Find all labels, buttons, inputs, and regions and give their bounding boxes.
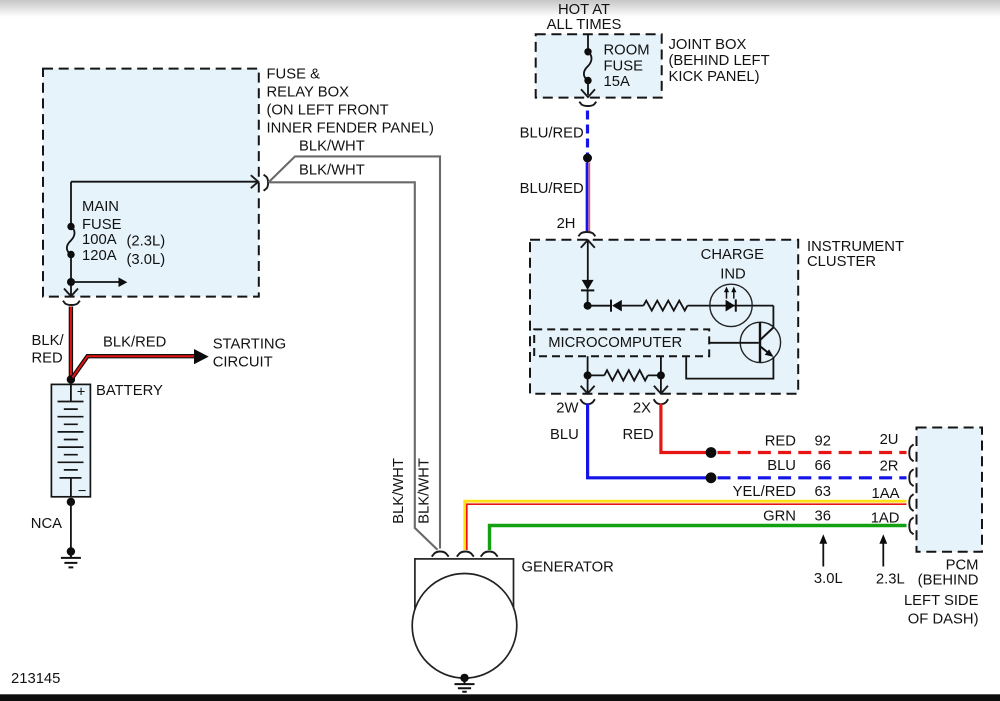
svg-text:INNER FENDER PANEL): INNER FENDER PANEL): [267, 121, 435, 137]
wire YEL/RED to PCM: [465, 501, 907, 550]
svg-text:2X: 2X: [633, 400, 651, 416]
microcomputer (dashed box): [534, 329, 709, 356]
svg-text:PCM: PCM: [946, 557, 979, 573]
wire 2X drop: [660, 356, 662, 392]
page top shading: [0, 0, 1000, 17]
arrow to starting circuit: [194, 349, 209, 364]
wire BLU solid: [588, 404, 708, 478]
resistor R1: [644, 301, 688, 311]
label STARTING CIRCUIT: [213, 337, 286, 371]
fuse & relay box (dashed enclosure): [43, 69, 259, 297]
svg-text:(BEHIND: (BEHIND: [918, 573, 979, 589]
svg-text:(2.3L): (2.3L): [127, 234, 166, 250]
connector arrow into cluster: [581, 240, 595, 248]
connector cap PCM 1AA: [909, 494, 913, 511]
svg-text:66: 66: [815, 458, 831, 474]
label YEL/RED 63: [733, 484, 831, 500]
svg-text:CHARGE: CHARGE: [701, 247, 764, 263]
wire BLU dashed to PCM: [718, 476, 907, 479]
label CHARGE IND: [701, 247, 764, 283]
label BLU 66: [767, 458, 831, 474]
svg-text:FUSE &: FUSE &: [267, 67, 321, 83]
fuse & relay box label: [267, 67, 435, 137]
label RED 92: [765, 434, 831, 450]
svg-text:MICROCOMPUTER: MICROCOMPUTER: [548, 335, 682, 351]
svg-text:INSTRUMENT: INSTRUMENT: [807, 239, 904, 255]
connector cap at instrument cluster entry: [578, 232, 595, 236]
svg-text:BLU/RED: BLU/RED: [520, 126, 584, 142]
generator rotor circle: [412, 574, 517, 679]
svg-text:2R: 2R: [880, 459, 899, 475]
connector arrow at fuse box right edge: [251, 175, 258, 188]
svg-text:BLK/RED: BLK/RED: [103, 335, 166, 351]
svg-text:BLK/: BLK/: [32, 333, 65, 349]
node: fuse box bottom junction: [67, 278, 75, 286]
svg-text:LEFT SIDE: LEFT SIDE: [904, 593, 979, 609]
svg-text:RED: RED: [32, 351, 63, 367]
wire: junction to diode D2: [588, 305, 611, 307]
svg-text:1AD: 1AD: [871, 510, 900, 526]
connector cap at fuse box right exit: [264, 175, 269, 191]
svg-text:CIRCUIT: CIRCUIT: [213, 355, 273, 371]
connector cap PCM 2R: [909, 469, 913, 486]
wire: resistor to charge lamp and transistor collector: [688, 306, 774, 328]
svg-text:BLK/WHT: BLK/WHT: [299, 162, 365, 178]
svg-text:ROOM: ROOM: [604, 42, 650, 58]
svg-text:(BEHIND LEFT: (BEHIND LEFT: [669, 53, 770, 69]
svg-text:(ON LEFT FRONT: (ON LEFT FRONT: [267, 103, 389, 119]
svg-text:BLK/WHT: BLK/WHT: [391, 458, 407, 524]
svg-text:MAIN: MAIN: [82, 199, 119, 215]
arrow 2.3L: [879, 534, 887, 566]
node: BLU/RED splice: [583, 154, 592, 163]
svg-text:BLU: BLU: [550, 427, 579, 443]
transistor Q1: [709, 322, 780, 362]
svg-text:BLK/WHT: BLK/WHT: [417, 458, 433, 524]
main fuse MAIN FUSE 100A/120A: [67, 223, 75, 258]
svg-text:BLK/WHT: BLK/WHT: [299, 138, 365, 154]
wire RED dashed to PCM: [718, 451, 907, 454]
generator terminal 3: [481, 552, 498, 557]
wire BLU/RED solid segment: [587, 163, 589, 232]
svg-text:JOINT BOX: JOINT BOX: [669, 37, 747, 53]
svg-text:BLU: BLU: [767, 458, 796, 474]
generator body: [415, 559, 514, 609]
room fuse label: [604, 42, 650, 90]
svg-text:FUSE: FUSE: [82, 217, 122, 233]
svg-text:BLU/RED: BLU/RED: [520, 181, 584, 197]
svg-text:15A: 15A: [604, 74, 630, 90]
diode D1 (pointing down): [581, 280, 594, 291]
wire BLK/WHT (upper) to generator: [269, 156, 440, 548]
svg-text:KICK PANEL): KICK PANEL): [669, 69, 760, 85]
svg-text:213145: 213145: [11, 671, 60, 687]
wire: battery to ground: [70, 502, 72, 550]
svg-text:92: 92: [815, 434, 831, 450]
resistor R2: [588, 370, 661, 380]
svg-text:CLUSTER: CLUSTER: [807, 254, 876, 270]
connector cap PCM 2U: [909, 444, 913, 461]
label JOINT BOX: [669, 37, 770, 85]
bottom black bar: [0, 694, 1000, 701]
connector cap 2W: [580, 399, 595, 404]
main fuse value labels: [82, 199, 165, 268]
svg-text:2U: 2U: [880, 432, 899, 448]
svg-text:STARTING: STARTING: [213, 337, 286, 353]
svg-text:RED: RED: [765, 434, 796, 450]
node: cluster junction: [584, 302, 592, 310]
diode D2 (pointing left): [611, 300, 622, 312]
connector cap PCM 1AD: [909, 517, 913, 534]
ground (generator): [455, 674, 475, 692]
svg-text:NCA: NCA: [31, 516, 62, 532]
svg-text:IND: IND: [720, 266, 745, 282]
arrow stub to other circuits: [71, 277, 127, 287]
wire: cluster feed down: [587, 241, 589, 281]
connector arrow at fuse box bottom edge: [64, 289, 78, 297]
svg-text:3.0L: 3.0L: [814, 571, 843, 587]
ground (battery): [61, 547, 81, 567]
node: 2W junction: [584, 371, 592, 379]
svg-text:120A: 120A: [82, 248, 117, 264]
connector cap below fuse box: [63, 301, 80, 305]
svg-text:+: +: [77, 385, 86, 401]
connector arrow 2W: [581, 386, 595, 394]
label INSTRUMENT CLUSTER: [807, 239, 904, 270]
node: RED splice: [706, 447, 717, 458]
node: BLU splice: [706, 472, 717, 483]
connector cap 2X: [654, 399, 669, 404]
connector cap below joint box: [579, 102, 596, 106]
svg-text:2W: 2W: [556, 400, 578, 416]
svg-text:36: 36: [815, 508, 831, 524]
label HOT AT ALL TIMES: [547, 2, 622, 33]
label GRN 36: [763, 508, 831, 524]
generator terminal 2: [457, 552, 474, 557]
svg-text:RED: RED: [623, 427, 654, 443]
wire 2W drop: [587, 356, 589, 392]
joint box (dashed enclosure): [536, 34, 662, 97]
label PCM (BEHIND LEFT SIDE OF DASH): [904, 557, 979, 627]
wire: fuse box output to right edge: [71, 181, 258, 183]
svg-text:1AA: 1AA: [872, 486, 900, 502]
svg-text:FUSE: FUSE: [604, 58, 644, 74]
wire GRN to PCM: [490, 526, 907, 551]
svg-text:OF DASH): OF DASH): [908, 612, 979, 628]
svg-text:RELAY BOX: RELAY BOX: [267, 85, 350, 101]
label BLK/RED (left, two lines): [32, 333, 65, 367]
node: 2X junction: [657, 371, 665, 379]
connector arrow 2X: [654, 386, 668, 394]
instrument cluster (dashed enclosure): [530, 240, 798, 394]
svg-text:GENERATOR: GENERATOR: [522, 560, 614, 576]
svg-text:HOT AT: HOT AT: [558, 2, 610, 18]
wire: fuse to junction: [70, 255, 72, 296]
wire BLK/WHT (lower) to generator: [269, 182, 438, 550]
node: battery negative junction: [67, 498, 75, 506]
connector arrow at joint box bottom: [581, 89, 595, 97]
wire BLK/RED to starting circuit: [73, 356, 195, 377]
svg-text:100A: 100A: [82, 232, 117, 248]
svg-text:ALL TIMES: ALL TIMES: [547, 17, 622, 33]
svg-text:2.3L: 2.3L: [876, 572, 905, 588]
room fuse 15A: [584, 34, 592, 95]
battery: [51, 384, 90, 499]
node: battery positive junction: [67, 375, 75, 383]
svg-text:GRN: GRN: [763, 508, 796, 524]
charge indicator lamp: [710, 284, 752, 326]
svg-text:BATTERY: BATTERY: [96, 383, 163, 399]
wire: emitter loop to microcomputer: [686, 356, 773, 378]
wire: main fuse feed vertical: [70, 182, 72, 227]
PCM (dashed enclosure): [917, 428, 983, 552]
svg-text:2H: 2H: [557, 216, 576, 232]
svg-text:63: 63: [815, 484, 831, 500]
svg-text:(3.0L): (3.0L): [127, 252, 166, 268]
wire: D2 to resistor: [622, 305, 644, 307]
svg-text:YEL/RED: YEL/RED: [733, 484, 796, 500]
generator terminal 1: [432, 552, 449, 557]
svg-text:−: −: [78, 483, 87, 499]
wire BLU/RED dashed segment: [586, 111, 589, 155]
wire RED solid: [661, 404, 709, 453]
arrow 3.0L: [819, 534, 827, 566]
wire BLK/RED fuse box to battery: [69, 307, 73, 378]
wire: diode to junction: [587, 290, 589, 303]
